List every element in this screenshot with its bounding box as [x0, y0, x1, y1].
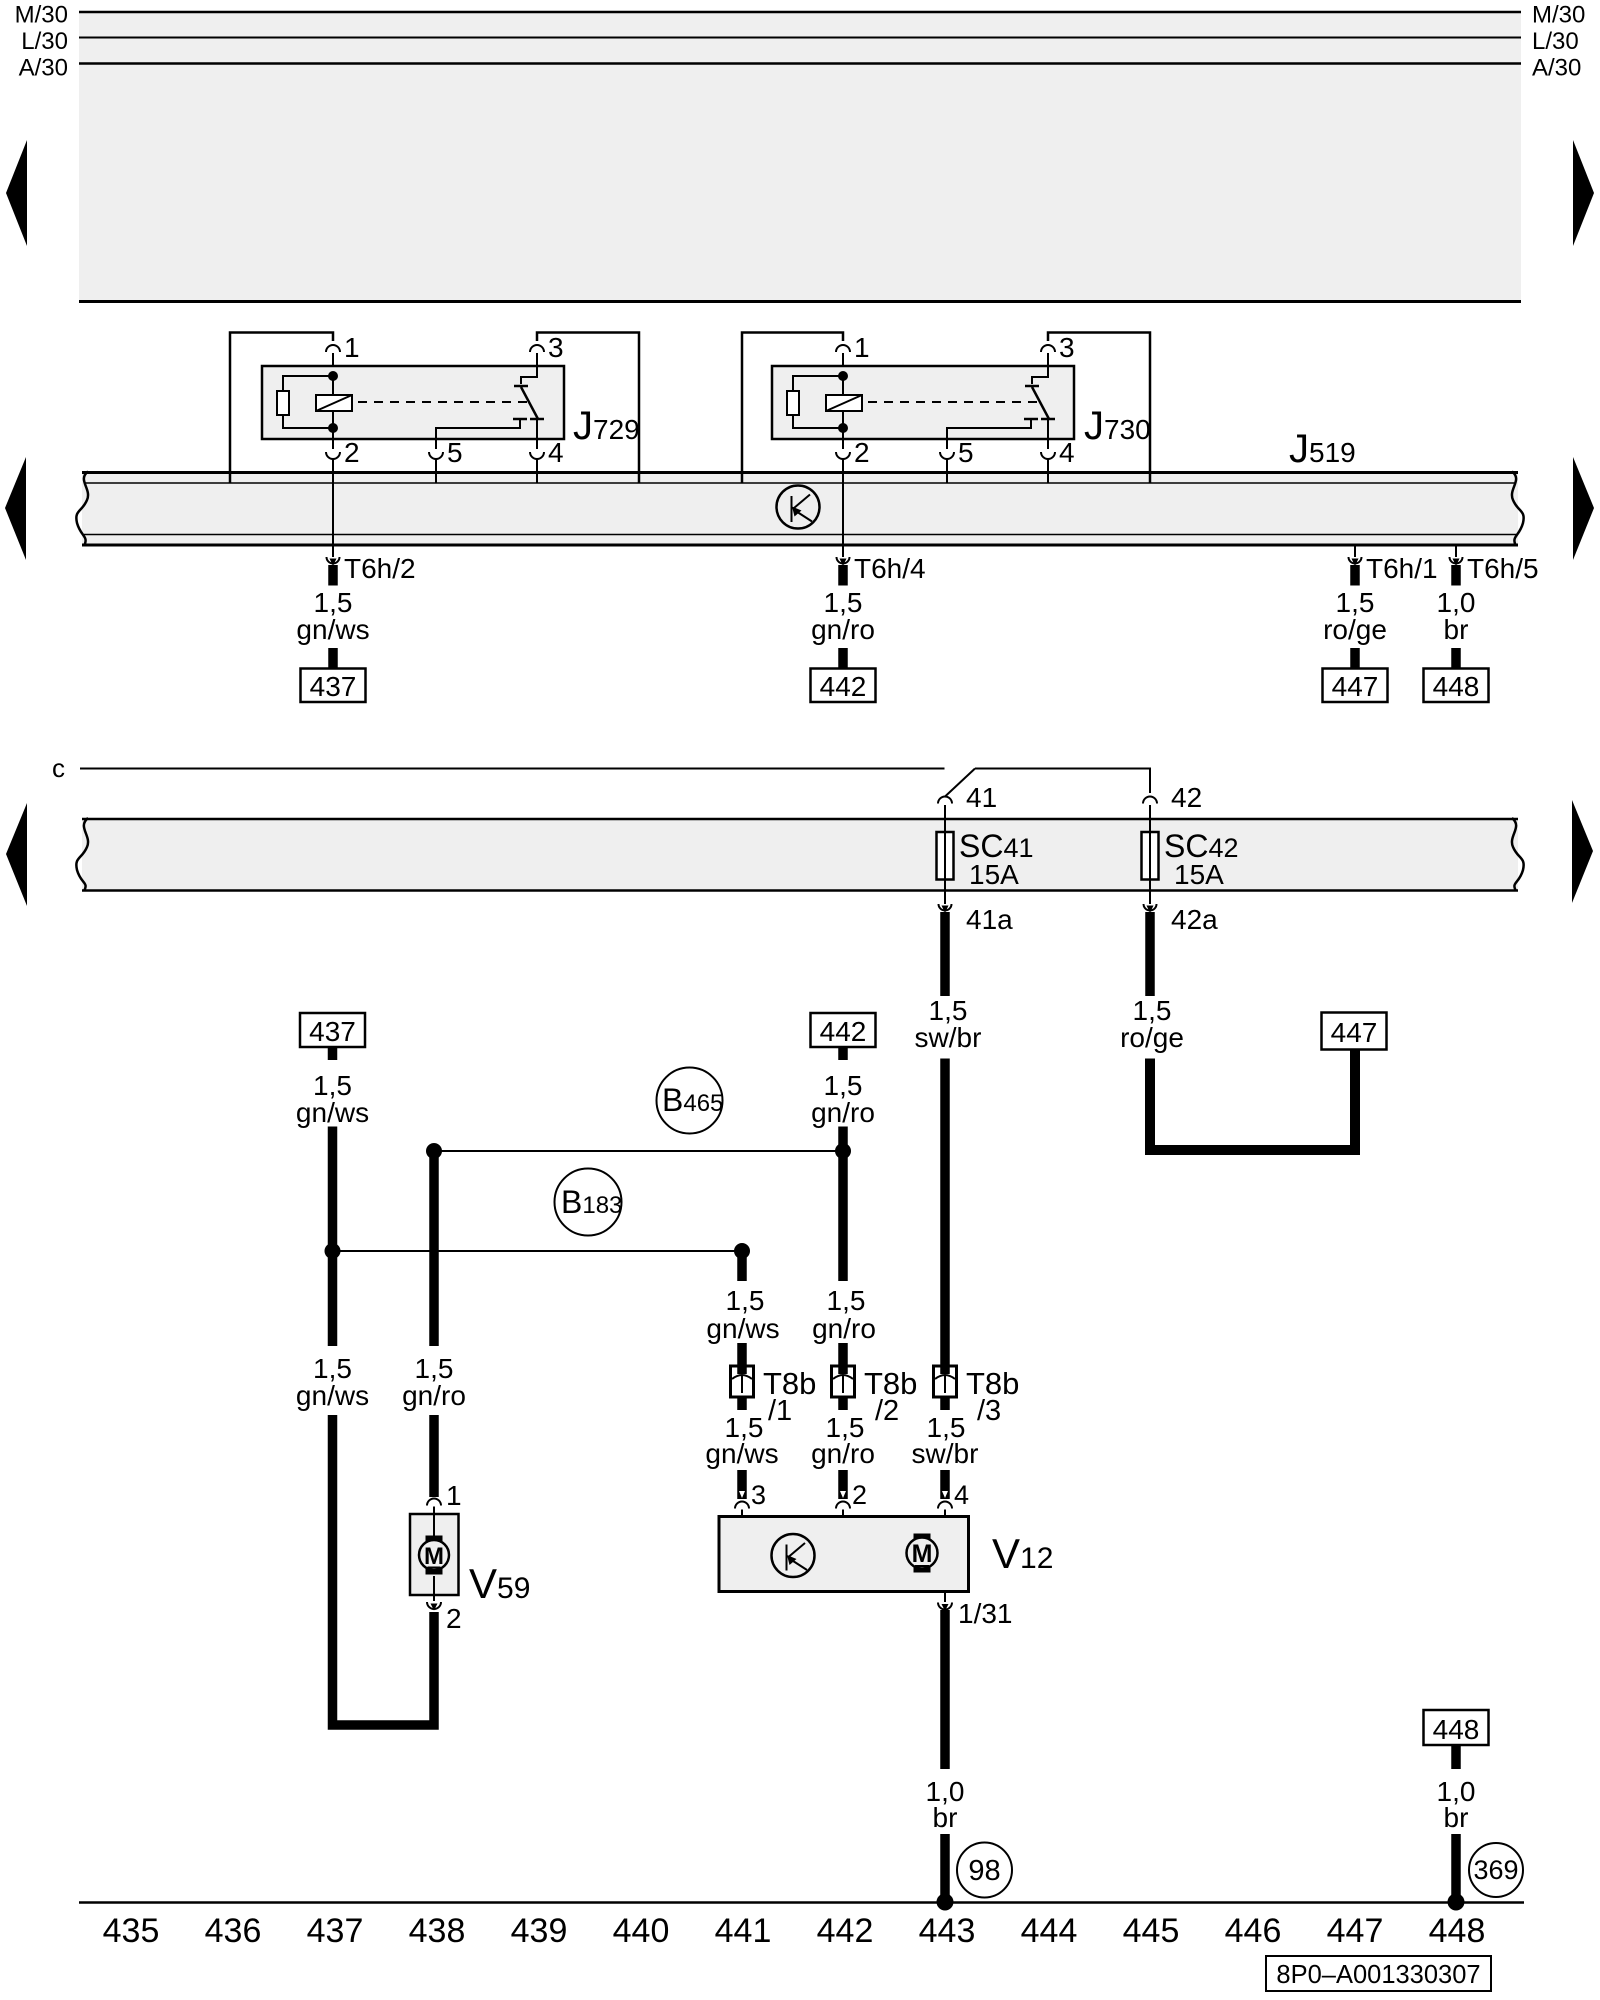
track reference box 437	[301, 669, 366, 703]
svg-text:444: 444	[1021, 1912, 1078, 1950]
svg-text:446: 446	[1225, 1912, 1282, 1950]
svg-text:2: 2	[854, 437, 870, 468]
wire frame pin1 to J519	[742, 333, 843, 484]
svg-text:437: 437	[310, 671, 357, 702]
wire stub	[838, 565, 848, 586]
pin 42 connector	[1143, 782, 1202, 833]
pin T6h/1 connector	[1349, 557, 1362, 564]
wire to V12 pin 2	[838, 1470, 848, 1499]
svg-text:437: 437	[309, 1016, 356, 1047]
wire stub	[328, 648, 338, 668]
svg-text:369: 369	[1473, 1855, 1518, 1885]
svg-text:8P0–A001330307: 8P0–A001330307	[1276, 1961, 1480, 1989]
svg-text:3: 3	[548, 332, 564, 363]
svg-text:gn/ro: gn/ro	[402, 1380, 466, 1411]
wire to T8b/1	[737, 1343, 747, 1375]
wire stub	[328, 565, 338, 586]
motor symbol	[426, 1536, 443, 1544]
node c rail	[52, 753, 1150, 797]
svg-text:4: 4	[548, 437, 564, 468]
node 441	[734, 1243, 750, 1259]
wire 42a ro/ge (upper)	[1145, 912, 1155, 996]
svg-text:br: br	[1444, 1802, 1469, 1833]
svg-text:42a: 42a	[1171, 904, 1218, 935]
fuse carrier strip	[76, 818, 1523, 891]
wire stub	[838, 648, 848, 668]
wire to ground 98	[940, 1834, 950, 1900]
svg-text:br: br	[1444, 614, 1469, 645]
connector housing T8b/3	[934, 1366, 957, 1397]
svg-text:1: 1	[446, 1480, 462, 1511]
svg-text:L/30: L/30	[21, 28, 68, 55]
svg-text:441: 441	[715, 1912, 772, 1950]
wire stub below 448	[1451, 1745, 1461, 1769]
node coil top	[328, 371, 338, 381]
node ground 369	[1448, 1894, 1465, 1911]
pin 1 connector	[326, 345, 340, 352]
node coil bottom	[328, 423, 338, 433]
pin T6h/4 connector	[837, 557, 850, 564]
pin 42a connector	[1144, 879, 1219, 935]
arrow left fuse row	[6, 803, 27, 906]
svg-text:5: 5	[958, 437, 974, 468]
ground symbol 98	[957, 1843, 1012, 1898]
pin 2 connector	[326, 452, 340, 459]
svg-text:15A: 15A	[969, 859, 1019, 890]
wiper motor V59	[410, 1480, 462, 1634]
svg-text:M/30: M/30	[1532, 2, 1585, 29]
wire 1,0 br from V12	[940, 1610, 950, 1769]
switch contact	[1032, 353, 1048, 384]
motor symbol in V12	[914, 1534, 931, 1542]
svg-text:439: 439	[511, 1912, 568, 1950]
connection B465	[657, 1068, 724, 1134]
svg-text:T6h/2: T6h/2	[344, 553, 416, 584]
onboard supply control unit J519 strip	[76, 471, 1523, 546]
svg-text:gn/ro: gn/ro	[811, 1097, 875, 1128]
svg-text:2: 2	[446, 1603, 462, 1634]
svg-text:2: 2	[344, 437, 360, 468]
svg-text:A/30: A/30	[19, 55, 68, 82]
wire stub	[1451, 565, 1461, 586]
wire B183 link	[333, 1250, 743, 1252]
svg-text:447: 447	[1331, 1017, 1378, 1048]
pin 5 connector	[429, 452, 443, 459]
svg-text:4: 4	[954, 1480, 969, 1510]
wire pin5 into J519	[435, 459, 437, 483]
wire from J519 to pin T6h/4	[842, 546, 844, 557]
terminal T6h/2 with wire to 437	[296, 546, 415, 702]
wire	[842, 353, 844, 376]
continuation slash	[945, 769, 976, 798]
wire gn/ro from node down to V59	[429, 1151, 439, 1346]
box 447 (to current track)	[1322, 1013, 1387, 1050]
svg-text:M/30: M/30	[15, 2, 68, 29]
pin 2	[427, 1602, 441, 1609]
wire from J519 to pin T6h/1	[1354, 546, 1356, 557]
V12 pin 4	[938, 1480, 969, 1517]
wire to ground 369	[1451, 1834, 1461, 1900]
svg-text:442: 442	[820, 1016, 867, 1047]
svg-text:5: 5	[447, 437, 463, 468]
wire gn/ws down to junction	[328, 1127, 338, 1347]
node 438	[426, 1143, 442, 1159]
wire from J519 to pin T6h/2	[332, 546, 334, 557]
svg-text:sw/br: sw/br	[912, 1438, 979, 1469]
relay coil	[842, 376, 844, 395]
svg-text:3: 3	[1059, 332, 1075, 363]
svg-text:98: 98	[968, 1855, 1000, 1887]
V12 pin 2	[836, 1480, 867, 1517]
wire stub	[1350, 565, 1360, 586]
svg-text:sw/br: sw/br	[915, 1022, 982, 1053]
wire gn/ro stub below 442	[838, 1047, 848, 1060]
fuse SC41 15A	[937, 828, 1034, 890]
arrow left top	[6, 140, 27, 246]
diagram number box	[1266, 1956, 1491, 1991]
pin 4 connector	[1041, 452, 1055, 459]
svg-text:M: M	[912, 1540, 933, 1568]
svg-text:443: 443	[919, 1912, 976, 1950]
connector T8b/3	[934, 1366, 1020, 1427]
connector housing T8b/1	[731, 1366, 754, 1397]
svg-text:436: 436	[205, 1912, 262, 1950]
track reference box 447	[1323, 669, 1388, 703]
wire 41a sw/br (upper)	[940, 912, 950, 996]
svg-text:gn/ro: gn/ro	[812, 1313, 876, 1344]
resistor (parallel)	[793, 376, 843, 391]
switch contact	[521, 353, 537, 384]
svg-text:gn/ro: gn/ro	[811, 1438, 875, 1469]
pin T6h/5 connector	[1450, 557, 1463, 564]
wire to T8b/2	[838, 1343, 848, 1375]
K diagnostic symbol	[777, 486, 820, 529]
box 437 (from current track)	[300, 1013, 365, 1047]
svg-text:br: br	[933, 1802, 958, 1833]
wire pin4 into J519	[1047, 459, 1049, 483]
svg-text:41a: 41a	[966, 904, 1013, 935]
node 442	[835, 1143, 851, 1159]
pin 5 connector	[940, 452, 954, 459]
connector T8b/1	[731, 1366, 817, 1427]
node coil top	[838, 371, 848, 381]
svg-text:1/31: 1/31	[958, 1598, 1013, 1629]
svg-text:2: 2	[852, 1480, 867, 1510]
track reference box 448	[1424, 669, 1489, 703]
svg-text:435: 435	[103, 1912, 160, 1950]
svg-text:gn/ws: gn/ws	[296, 614, 369, 645]
pin 41 connector	[938, 782, 997, 833]
torn edge right	[1512, 472, 1524, 547]
svg-text:438: 438	[409, 1912, 466, 1950]
wire frame pin1 to J519	[230, 333, 333, 484]
wire gn/ro down	[838, 1127, 848, 1282]
wire stub	[1451, 648, 1461, 668]
svg-text:1: 1	[854, 332, 870, 363]
torn edge left	[76, 472, 88, 547]
wire gn/ws stub below 437	[328, 1047, 338, 1060]
ground rail	[79, 1901, 1524, 1904]
wire pin2	[842, 428, 844, 449]
terminal T6h/1 with wire to 447	[1323, 546, 1438, 702]
wire from J519 to pin T6h/5	[1455, 546, 1457, 557]
svg-text:/3: /3	[977, 1395, 1001, 1427]
svg-text:437: 437	[307, 1912, 364, 1950]
pin T6h/2 connector	[327, 557, 340, 564]
pin 2 connector	[836, 452, 850, 459]
actuation dashed link	[868, 401, 1037, 403]
svg-text:gn/ws: gn/ws	[296, 1380, 369, 1411]
wire gn/ws lower run	[333, 1415, 435, 1725]
svg-text:M: M	[424, 1543, 444, 1570]
pin 41a connector	[939, 879, 1014, 935]
pin 4 connector	[530, 452, 544, 459]
connection B183	[555, 1169, 623, 1236]
svg-text:/2: /2	[875, 1395, 899, 1427]
V12 pin 1/31	[938, 1592, 1013, 1630]
wire	[332, 353, 334, 376]
svg-text:445: 445	[1123, 1912, 1180, 1950]
fresh air blower V12	[719, 1517, 969, 1592]
pin 1	[427, 1499, 441, 1506]
connector housing T8b/2	[832, 1366, 855, 1397]
relay J729	[230, 332, 640, 545]
wire pin5 into J519	[946, 459, 948, 483]
torn edge right	[1512, 818, 1524, 891]
svg-text:442: 442	[817, 1912, 874, 1950]
wire B465 link	[434, 1150, 843, 1152]
svg-text:A/30: A/30	[1532, 55, 1581, 82]
svg-text:L/30: L/30	[1532, 28, 1579, 55]
svg-text:gn/ws: gn/ws	[706, 1313, 779, 1344]
svg-text:c: c	[52, 753, 65, 783]
wire pin2	[332, 428, 334, 449]
fuse SC42 15A	[1142, 828, 1239, 890]
node ground 98	[937, 1894, 954, 1911]
box 442 (from current track)	[811, 1013, 876, 1047]
box 448 (to current track)	[1424, 1710, 1489, 1745]
track reference box 442	[811, 669, 876, 703]
svg-text:447: 447	[1332, 671, 1379, 702]
K diagnostic symbol in V12	[772, 1534, 815, 1577]
svg-text:41: 41	[966, 782, 997, 813]
arrow right fuse row	[1572, 800, 1593, 903]
arrow left J519 row	[5, 457, 26, 560]
wire 41a sw/br (lower, to T8b/3)	[940, 1059, 950, 1376]
svg-text:442: 442	[820, 671, 867, 702]
node coil bottom	[838, 423, 848, 433]
svg-text:448: 448	[1433, 671, 1480, 702]
relay J730	[742, 332, 1151, 545]
current track numbers	[103, 1912, 1486, 1950]
svg-text:T6h/5: T6h/5	[1467, 553, 1539, 584]
svg-text:/1: /1	[768, 1395, 792, 1427]
wire to V12 pin 3	[737, 1470, 747, 1499]
svg-text:T6h/4: T6h/4	[854, 553, 926, 584]
wire to V12 pin 4	[940, 1470, 950, 1499]
svg-text:gn/ws: gn/ws	[705, 1438, 778, 1469]
wire pin2 into J519	[842, 459, 844, 545]
terminal T6h/4 with wire to 442	[811, 546, 926, 702]
ground symbol 369	[1469, 1843, 1523, 1897]
relay coil	[332, 376, 334, 395]
wire 42a to 447	[1150, 1050, 1355, 1150]
wire gn/ro to V59 pin 1	[429, 1415, 439, 1497]
pin 3 connector	[1041, 345, 1055, 352]
svg-text:15A: 15A	[1174, 859, 1224, 890]
svg-text:gn/ws: gn/ws	[296, 1097, 369, 1128]
pin 3 connector	[530, 345, 544, 352]
relay body J730	[772, 366, 1074, 439]
svg-text:448: 448	[1429, 1912, 1486, 1950]
svg-text:440: 440	[613, 1912, 670, 1950]
V12 pin 3	[735, 1480, 766, 1517]
wire pin2 into J519	[332, 459, 334, 545]
node 437	[325, 1243, 341, 1259]
wire pin4 into J519	[536, 459, 538, 483]
svg-text:3: 3	[751, 1480, 766, 1510]
wire stub below node 441	[737, 1251, 747, 1281]
torn edge left	[76, 818, 88, 891]
wire frame pin3 to J519	[537, 333, 639, 484]
wire stub	[1350, 648, 1360, 668]
pin 1 connector	[836, 345, 850, 352]
connector T8b/2	[832, 1366, 918, 1427]
svg-text:ro/ge: ro/ge	[1120, 1022, 1184, 1053]
actuation dashed link	[358, 401, 527, 403]
relay body J729	[262, 366, 564, 439]
resistor (parallel)	[283, 376, 333, 391]
svg-text:4: 4	[1059, 437, 1075, 468]
terminal T6h/5 with wire to 448	[1424, 546, 1539, 702]
svg-text:gn/ro: gn/ro	[811, 614, 875, 645]
svg-text:T6h/1: T6h/1	[1366, 553, 1438, 584]
svg-text:447: 447	[1327, 1912, 1384, 1950]
svg-text:1: 1	[344, 332, 360, 363]
svg-text:1,5: 1,5	[726, 1285, 765, 1316]
svg-text:448: 448	[1433, 1714, 1480, 1745]
arrow right top	[1573, 140, 1594, 246]
wire frame pin3 to J519	[1048, 333, 1150, 484]
arrow right J519 row	[1573, 457, 1594, 560]
svg-text:ro/ge: ro/ge	[1323, 614, 1387, 645]
svg-text:1,5: 1,5	[827, 1285, 866, 1316]
bus bar strip top (terminal 30 rails)	[79, 11, 1521, 302]
svg-text:42: 42	[1171, 782, 1202, 813]
